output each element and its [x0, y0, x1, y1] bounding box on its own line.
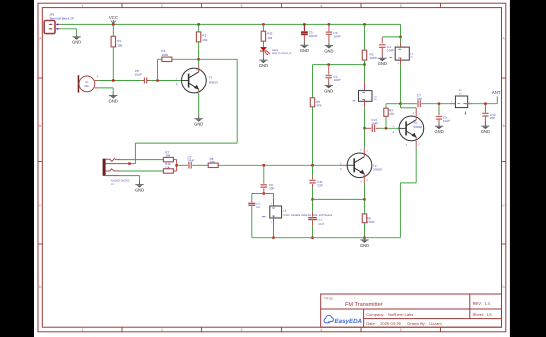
- svg-text:104P: 104P: [371, 121, 378, 125]
- wire C12 to bottom rail: [251, 206, 253, 237]
- svg-text:GND: GND: [481, 129, 490, 134]
- wire tank to L4: [264, 194, 274, 209]
- pin marks T2 emitter: [360, 179, 368, 183]
- pin marks T1: [176, 69, 198, 95]
- node rail junction R2: [197, 23, 199, 25]
- node rail junction C3: [328, 23, 330, 25]
- border column numbers top: [82, 4, 402, 8]
- label R3 100R: [370, 53, 378, 60]
- label C1 104P: [387, 45, 394, 52]
- wire loop down: [236, 59, 238, 143]
- svg-text:101P: 101P: [443, 119, 450, 123]
- wire C5 to ground: [303, 35, 305, 45]
- border row letters left: [39, 37, 42, 290]
- svg-text:Terminal Block 2P: Terminal Block 2P: [49, 17, 74, 21]
- svg-text:C14: C14: [317, 219, 322, 222]
- label R10 10k: [165, 162, 171, 169]
- svg-text:10uF: 10uF: [135, 73, 142, 77]
- capacitor C12: [248, 203, 255, 205]
- wire oscillator bottom rail: [252, 237, 401, 239]
- node tank junction C6: [263, 164, 265, 166]
- svg-text:33P: 33P: [269, 187, 274, 191]
- svg-text:GND: GND: [259, 63, 268, 68]
- wire C2 to R6: [192, 164, 208, 166]
- wire mixer to C2: [177, 164, 188, 166]
- wire R3 node left: [313, 64, 365, 66]
- node C4 junction: [328, 63, 330, 65]
- wire T2 emitter down: [363, 176, 365, 199]
- svg-text:GND: GND: [324, 48, 333, 53]
- wire T1 collector loop right: [199, 58, 238, 60]
- border row ticks left: [38, 78, 42, 244]
- wire C7 to C9 node: [421, 103, 450, 105]
- EasyEDA logo: [324, 315, 362, 324]
- svg-text:LED-TH-5mm_R: LED-TH-5mm_R: [272, 52, 291, 55]
- node bottom rail R8 junction: [363, 237, 365, 239]
- svg-text:10uF: 10uF: [187, 159, 194, 163]
- wire node to C4: [328, 65, 330, 75]
- label C3 104P: [334, 31, 341, 38]
- capacitor C14: [308, 218, 317, 220]
- svg-text:47K: 47K: [389, 112, 394, 116]
- capacitor C5 electrolytic: [301, 32, 308, 34]
- wire R9 top to output node: [386, 104, 401, 109]
- label C9 101P: [443, 116, 450, 123]
- wire emitter junction to R8: [364, 199, 366, 214]
- ground GND at C1: [378, 58, 387, 66]
- svg-text:4: 4: [320, 328, 322, 332]
- svg-text:Sheet: 1/1: Sheet: 1/1: [473, 312, 493, 317]
- node R9 base junction: [385, 127, 387, 129]
- wire R1 to mic line: [112, 47, 114, 81]
- capacitor C9: [436, 117, 442, 120]
- node C9 junction: [438, 103, 440, 105]
- wire rail corner down to L3: [400, 24, 402, 37]
- inner border frame: [42, 8, 501, 328]
- wire LED to ground: [262, 52, 264, 61]
- wire loop to jack ring: [129, 163, 135, 165]
- wire R8 to bottom rail: [364, 223, 366, 238]
- transistor T3: [399, 116, 424, 141]
- svg-text:1nF: 1nF: [256, 206, 261, 209]
- svg-text:GND: GND: [434, 129, 443, 134]
- resistor R3: [362, 50, 366, 60]
- label R2 15k: [202, 34, 207, 43]
- capacitor C4: [326, 76, 332, 78]
- label C2 10uF: [187, 155, 194, 162]
- wire collector junction down to T1: [198, 59, 200, 72]
- capacitor C8: [144, 78, 146, 84]
- svg-text:10k: 10k: [117, 43, 122, 47]
- wire into L1: [450, 103, 458, 105]
- label R9 47K: [389, 109, 394, 116]
- resistor R4: [162, 57, 172, 61]
- title block Date and Drawn By: [366, 321, 442, 326]
- wire L1 to antenna node: [465, 103, 497, 105]
- label C5 100uF: [309, 31, 318, 38]
- wire to L3: [400, 37, 402, 50]
- wire R7 R10 mix: [173, 160, 176, 171]
- wire L4 to bottom rail: [273, 216, 275, 238]
- wire rail to R11: [262, 24, 264, 31]
- label C8 10uF: [135, 69, 142, 77]
- border column ticks top: [122, 3, 441, 7]
- wire R4 to collector junction: [172, 58, 199, 60]
- wire R2 to collector junction: [198, 42, 200, 59]
- svg-text:10k: 10k: [267, 36, 272, 40]
- label R8 470R: [367, 216, 375, 224]
- svg-text:47K: 47K: [316, 103, 321, 107]
- pin marks T3 collector: [413, 112, 420, 116]
- svg-text:10k: 10k: [165, 165, 170, 169]
- ground GND at C9: [434, 126, 443, 134]
- wire R3 to node: [364, 60, 366, 65]
- wire jack sleeve to ground: [119, 176, 139, 185]
- wire node to C10: [484, 104, 486, 113]
- svg-text:5: 5: [400, 328, 402, 332]
- label C12 1nF: [256, 203, 261, 210]
- wire tank to C12: [252, 194, 264, 203]
- svg-text:GND: GND: [300, 48, 309, 53]
- svg-text:470R: 470R: [367, 220, 375, 224]
- title block title text FM Transmitter: [345, 301, 383, 308]
- svg-text:GND: GND: [194, 122, 203, 127]
- node T3 collector junction: [399, 103, 401, 105]
- wire junction down to C11: [312, 165, 314, 179]
- node C10 junction: [484, 103, 486, 105]
- svg-text:MIC: MIC: [84, 85, 89, 88]
- label T1 2N914: [209, 75, 218, 84]
- transistor T2: [347, 153, 372, 178]
- wire R11 to LED: [262, 41, 264, 47]
- svg-text:20P: 20P: [490, 116, 495, 120]
- capacitor C6: [261, 185, 268, 187]
- svg-text:ANT: ANT: [492, 90, 501, 95]
- wire T1 emitter to ground: [198, 93, 200, 119]
- svg-text:4: 4: [320, 4, 322, 8]
- resistor R5: [310, 98, 314, 107]
- svg-text:104P: 104P: [387, 49, 394, 53]
- node mic bias junction: [112, 79, 114, 81]
- label R1 10k: [117, 39, 122, 47]
- wire mic plus to T1 base line: [97, 80, 144, 82]
- wire antenna stub: [496, 96, 498, 103]
- label C13 104P: [371, 118, 378, 126]
- svg-text:TITLE:: TITLE:: [324, 297, 334, 301]
- node emitter feedback junction: [311, 198, 313, 200]
- label L3: [410, 53, 413, 59]
- svg-text:+: +: [97, 75, 99, 79]
- ground GND at R8: [360, 240, 369, 248]
- wire output to C7: [401, 103, 417, 105]
- svg-text:100uF: 100uF: [309, 34, 318, 38]
- pin marks T2 base: [340, 162, 342, 171]
- label R4 100k: [162, 49, 169, 57]
- title block Company Northern Labs: [366, 312, 413, 317]
- node L4 bottom junction: [272, 237, 274, 239]
- ground GND at C10: [481, 126, 490, 134]
- wire L3 to output node: [400, 58, 402, 104]
- wire rail to C3: [328, 24, 330, 31]
- wire base junction up to R9: [385, 116, 387, 128]
- label C4 102P: [334, 75, 341, 82]
- svg-text:10k: 10k: [165, 154, 170, 158]
- wire junction up to R4: [158, 59, 162, 80]
- wire JP1 pin2 to ground: [61, 29, 77, 37]
- capacitor C10: [482, 113, 488, 116]
- wire rail to R3: [364, 24, 366, 50]
- resistor R2: [196, 32, 200, 42]
- node T2 collector junction: [363, 127, 365, 129]
- title block TITLE label: [324, 297, 334, 301]
- svg-text:15k: 15k: [202, 38, 207, 42]
- wire R8 junction to ground: [364, 238, 366, 240]
- wire node to C13: [365, 127, 372, 129]
- net label ANT: [492, 90, 501, 95]
- inductor L4: [262, 202, 282, 223]
- svg-text:104P: 104P: [334, 34, 341, 38]
- svg-text:1: 1: [82, 328, 84, 332]
- wire node to T3 collector: [401, 104, 417, 117]
- node jack ring junction: [128, 162, 130, 164]
- ground GND at C5: [300, 45, 309, 53]
- label L2: [374, 95, 377, 101]
- svg-text:33P: 33P: [317, 184, 322, 188]
- wire C10 to ground: [484, 116, 486, 126]
- svg-text:GND: GND: [135, 188, 144, 193]
- label R6 22K: [210, 157, 215, 164]
- wire node to C1: [382, 37, 400, 44]
- wire C3 to ground: [328, 35, 330, 45]
- svg-text:5: 5: [400, 4, 402, 8]
- svg-text:GND: GND: [109, 98, 118, 103]
- svg-text:GND: GND: [378, 61, 387, 66]
- node T1 collector junction: [197, 58, 199, 60]
- wire mic minus to ground: [97, 88, 113, 96]
- svg-text:GND: GND: [72, 40, 81, 45]
- svg-text:102P: 102P: [334, 78, 341, 82]
- svg-text:S9018: S9018: [373, 168, 382, 172]
- label T2 S9018: [373, 164, 382, 172]
- node rail junction R3: [363, 23, 365, 25]
- wire VCC to R1: [112, 24, 114, 36]
- label C14 101P: [317, 219, 324, 226]
- ground GND at C3: [324, 46, 333, 54]
- capacitor C13: [372, 125, 374, 132]
- svg-text:100k: 100k: [162, 53, 169, 57]
- svg-text:B: B: [503, 124, 505, 128]
- svg-text:22K: 22K: [210, 160, 215, 164]
- ground GND at T1: [194, 119, 203, 127]
- wire R6 to T2 base: [218, 164, 347, 166]
- svg-text:FM Transmitter: FM Transmitter: [345, 301, 383, 308]
- wire R3 node to L2: [364, 65, 366, 93]
- label R11 10k: [267, 32, 273, 41]
- resistor R7: [163, 157, 173, 161]
- wire emitter jog left: [400, 182, 416, 184]
- node T2 base line junction: [311, 164, 313, 166]
- wire emitter down to bottom rail: [399, 183, 401, 238]
- node bottom rail C14 junction: [311, 237, 313, 239]
- label R7 10k: [165, 150, 170, 157]
- svg-text:T1: T1: [209, 75, 213, 79]
- diode LED1: [260, 47, 270, 55]
- wire C13 to T3 base: [376, 127, 399, 129]
- wire L2 to T2 collector node: [364, 99, 366, 128]
- svg-text:GND: GND: [360, 243, 369, 248]
- inductor L3: [390, 43, 410, 64]
- svg-text:3: 3: [241, 328, 243, 332]
- pin marks T2 collector: [360, 149, 368, 152]
- label C6 33P: [269, 183, 274, 190]
- svg-text:–: –: [96, 88, 98, 92]
- wire loop down to jack: [134, 143, 136, 164]
- node VCC junction: [112, 23, 114, 25]
- node rail junction R11: [262, 23, 264, 25]
- svg-text:5mm Tunable Inductor, 164, 155: 5mm Tunable Inductor, 164, 155 Series: [283, 213, 332, 217]
- svg-text:EasyEDA: EasyEDA: [335, 318, 363, 325]
- node R3 bottom junction: [363, 63, 365, 65]
- wire jack tip to R7: [120, 159, 163, 161]
- svg-text:2: 2: [161, 4, 163, 8]
- node mixer junction: [175, 164, 177, 166]
- svg-text:REV: 1.4: REV: 1.4: [473, 301, 491, 306]
- svg-text:Date: 2025-04-29 Drawn: Date: 2025-04-29 Drawn By: Uzzam: [366, 321, 442, 326]
- ground GND at jack: [135, 185, 144, 193]
- wire jack mid to R10: [121, 170, 163, 172]
- ground GND at mic: [109, 96, 118, 104]
- node base-R4 junction: [156, 79, 158, 81]
- wire node to C9: [438, 104, 440, 116]
- wire collector node down to T2: [363, 128, 365, 154]
- capacitor C2: [189, 162, 191, 169]
- microphone U1 MIC: [78, 75, 99, 93]
- border row letters right: [503, 37, 506, 290]
- node T2 emitter junction: [363, 198, 365, 200]
- wire C8 to T1 base: [147, 80, 182, 82]
- label C10 20P: [490, 113, 496, 120]
- label C7 33P: [417, 93, 422, 100]
- svg-text:Company: Northern Labs: Company: Northern Labs: [366, 312, 413, 317]
- title block frame: [321, 294, 502, 327]
- svg-text:101P: 101P: [318, 223, 324, 226]
- ground GND at C4: [324, 85, 333, 93]
- wire emitter node to C14: [312, 199, 314, 216]
- svg-text:2N914: 2N914: [209, 80, 218, 84]
- capacitor C3: [326, 32, 332, 34]
- wire C1 to ground: [381, 48, 383, 59]
- inductor L2: [353, 87, 372, 106]
- ground GND at JP1: [72, 37, 81, 45]
- svg-text:J1: J1: [111, 182, 114, 186]
- resistor R9: [384, 108, 388, 116]
- wire down to R5: [312, 65, 314, 98]
- svg-text:33P: 33P: [417, 97, 422, 101]
- wire R5 to T2 base line: [312, 107, 314, 166]
- wire rail to C5: [303, 24, 305, 31]
- resistor R8: [362, 214, 366, 223]
- inductor L1: [451, 96, 471, 115]
- wire emitter node to T2: [313, 198, 365, 200]
- wire C4 to ground: [328, 79, 330, 86]
- resistor R6: [208, 163, 218, 167]
- svg-text:R1: R1: [117, 39, 121, 43]
- label AUDIO-JACK2 J1: [111, 178, 130, 186]
- border column ticks bottom: [122, 327, 441, 332]
- svg-text:R2: R2: [202, 34, 206, 38]
- wire C6 to tank node: [263, 188, 265, 193]
- connector J1 AUDIO-JACK2: [103, 159, 130, 176]
- resistor R10: [163, 169, 173, 173]
- border column numbers bottom: [82, 328, 402, 332]
- wire T3 emitter down: [415, 141, 417, 183]
- connector JP1 Terminal Block 2P: [44, 21, 60, 34]
- svg-text:U1: U1: [85, 81, 89, 84]
- ground GND at LED1: [259, 60, 268, 68]
- capacitor C1: [379, 45, 386, 48]
- wire C11 to emitter node: [312, 184, 314, 199]
- svg-text:100R: 100R: [370, 56, 378, 60]
- wire junction down to C6: [263, 165, 265, 183]
- svg-text:1: 1: [82, 4, 84, 8]
- wire C14 to bottom rail: [312, 221, 314, 238]
- node C1 junction: [399, 36, 401, 38]
- title block REV 1.4: [473, 301, 491, 306]
- pin marks T3 emitter: [406, 143, 421, 147]
- wire loop left: [135, 142, 237, 144]
- wire VCC rail: [61, 23, 401, 25]
- label R5 47K: [316, 100, 321, 107]
- border row ticks right: [502, 78, 506, 244]
- svg-text:B: B: [39, 124, 41, 128]
- label L1: [459, 89, 462, 96]
- wire C9 to ground: [438, 119, 440, 126]
- svg-text:2: 2: [161, 328, 163, 332]
- svg-text:GND: GND: [324, 88, 333, 93]
- label L4 5mm Tunable Inductor: [283, 209, 332, 217]
- label JP1: [49, 13, 74, 21]
- label C11 33P: [317, 180, 323, 187]
- svg-text:R11: R11: [267, 32, 273, 36]
- power flag VCC: [109, 15, 118, 24]
- label T3 S9018: [413, 121, 422, 129]
- transistor T1: [182, 68, 207, 93]
- resistor R11: [261, 31, 265, 41]
- label LED1 LED-TH-5mm_R: [272, 49, 291, 55]
- node rail junction C5: [303, 23, 305, 25]
- svg-text:3: 3: [241, 4, 243, 8]
- svg-text:VCC: VCC: [109, 15, 118, 20]
- capacitor C11: [309, 180, 315, 183]
- node tank top junction: [263, 192, 265, 194]
- svg-text:S9018: S9018: [413, 125, 422, 129]
- resistor R1: [111, 36, 115, 47]
- pin marks T3 base: [393, 125, 395, 134]
- wire rail to R2: [198, 24, 200, 32]
- capacitor C7: [418, 100, 420, 107]
- title block Sheet 1/1: [473, 312, 493, 317]
